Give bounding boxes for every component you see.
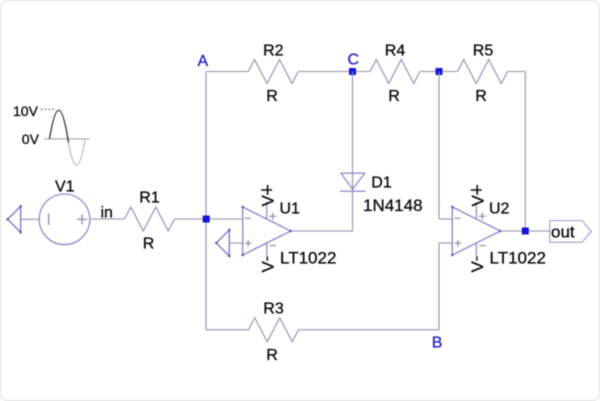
wire right corner down to output junction <box>524 72 526 232</box>
resistor R4 <box>370 60 420 84</box>
op-amp U2 V+ plus mark <box>479 215 486 217</box>
op-amp U1 triangle <box>243 207 291 255</box>
wire U2 non-inverting input down to node B <box>439 242 452 244</box>
svg-text:R2: R2 <box>263 43 284 60</box>
op-amp U2 V+ pin <box>475 202 477 219</box>
annotation dotted peak level line <box>41 108 55 110</box>
wire R5 to right corner <box>508 71 526 73</box>
svg-text:R: R <box>388 88 400 105</box>
svg-text:U2: U2 <box>489 201 510 218</box>
svg-text:R3: R3 <box>263 301 284 318</box>
svg-text:R: R <box>266 347 278 364</box>
V1 minus mark (rotated) <box>48 214 50 225</box>
wire ground to U1 + input <box>229 242 242 244</box>
wire A to R2 <box>206 71 248 73</box>
svg-text:in: in <box>101 205 113 222</box>
net flag out <box>550 221 592 243</box>
resistor R3 <box>249 318 299 342</box>
svg-text:LT1022: LT1022 <box>280 249 336 268</box>
annotation sine positive half (black) <box>50 110 69 142</box>
op-amp U2 inverting input minus mark <box>455 217 461 219</box>
svg-text:R4: R4 <box>385 43 406 60</box>
svg-text:1N4148: 1N4148 <box>363 196 423 215</box>
svg-text:B: B <box>432 335 443 352</box>
svg-text:R: R <box>266 88 278 105</box>
op-amp U2 V- pin <box>475 243 477 256</box>
op-amp U2 V- minus mark <box>479 245 486 247</box>
wire junction down to U2 inverting input <box>438 72 440 220</box>
ground at U1 non-inverting input <box>216 230 229 256</box>
wire node A vertical <box>205 72 207 330</box>
wire R1 to U1 inverting input <box>175 218 243 220</box>
V1 plus mark <box>77 218 87 220</box>
voltage source V1 circle <box>39 194 90 245</box>
op-amp U1 V- minus mark <box>270 245 277 247</box>
svg-text:D1: D1 <box>371 175 392 192</box>
wire R3 to node B corner <box>299 329 440 331</box>
resistor R5 <box>458 60 508 84</box>
op-amp U2 triangle <box>452 207 500 255</box>
op-amp U1 V- pin <box>266 243 268 256</box>
annotation sine negative half (gray) <box>69 139 86 165</box>
wire node C down through D1 to U1 output <box>352 72 354 232</box>
wire ground to V1 <box>21 218 40 220</box>
junction at R1/U1/feedback <box>203 216 210 223</box>
annotation 0V axis line <box>44 138 90 140</box>
svg-text:U1: U1 <box>280 201 301 218</box>
wire V1 to R1 <box>90 218 125 220</box>
junction at node C <box>349 68 356 75</box>
svg-text:LT1022: LT1022 <box>490 249 546 268</box>
wire R2 to node C <box>298 71 370 73</box>
svg-text:V: V <box>259 195 278 207</box>
op-amp U1 non-inverting input plus mark <box>245 242 252 244</box>
svg-text:R: R <box>475 88 487 105</box>
wire U1 output to diode node <box>291 230 353 232</box>
svg-text:V1: V1 <box>55 179 75 196</box>
svg-text:R1: R1 <box>139 190 160 207</box>
resistor R1 <box>125 207 175 231</box>
svg-text:0V: 0V <box>22 131 40 147</box>
svg-text:A: A <box>198 53 209 70</box>
op-amp U1 V+ plus mark <box>269 215 276 217</box>
ground at V1 minus terminal <box>8 206 21 232</box>
wire U2 output to out flag <box>500 230 550 232</box>
svg-text:C: C <box>348 52 360 69</box>
op-amp U2 non-inverting input plus mark <box>455 242 462 244</box>
op-amp U1 inverting input minus mark <box>245 217 251 219</box>
diode D1 <box>341 173 365 189</box>
svg-text:R5: R5 <box>473 43 494 60</box>
svg-text:V: V <box>259 261 278 273</box>
junction at U2 output <box>522 228 529 235</box>
wire A column to R3 <box>206 329 249 331</box>
svg-text:out: out <box>551 223 575 242</box>
wire R4 to R5 <box>420 71 458 73</box>
svg-text:10V: 10V <box>13 103 39 119</box>
resistor R2 <box>248 60 298 84</box>
op-amp U1 V+ pin <box>266 202 268 219</box>
junction R4/R5/U2 input <box>436 68 443 75</box>
svg-text:V: V <box>468 261 487 273</box>
svg-text:R: R <box>143 236 155 253</box>
svg-text:V: V <box>468 195 487 207</box>
